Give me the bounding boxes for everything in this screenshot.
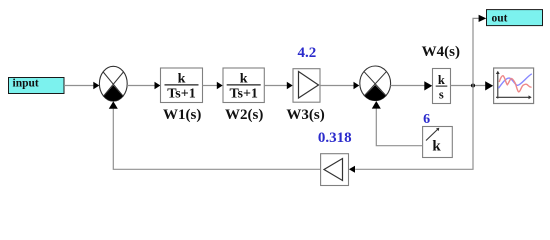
wire W1 to W2 (203, 82, 223, 90)
block W4 k/s integrator (433, 69, 451, 104)
svg-text:input: input (13, 78, 39, 90)
scope block (494, 68, 534, 104)
svg-text:0.318: 0.318 (318, 130, 352, 146)
svg-text:W2(s): W2(s) (225, 107, 263, 123)
svg-text:k: k (438, 73, 445, 87)
summing junction S1 (99, 66, 127, 101)
out sink box "out" (487, 10, 543, 26)
svg-text:4.2: 4.2 (298, 45, 317, 61)
block W1 k/(Ts+1) (161, 68, 203, 103)
block W2 k/(Ts+1) (223, 68, 264, 103)
svg-text:Ts+1: Ts+1 (167, 87, 195, 102)
input source box "input" (9, 78, 65, 94)
wire branch down to feedback line (349, 86, 473, 173)
wire W4 to scope with junction node (451, 81, 494, 90)
summing junction S2 (360, 66, 391, 101)
wire S2 to W4 (390, 81, 432, 90)
svg-text:s: s (439, 88, 444, 102)
svg-text:W4(s): W4(s) (422, 44, 460, 60)
wire S1 to W1 (127, 82, 160, 90)
block gain 0.318 left-pointing amplifier (321, 154, 349, 186)
wire W3 to summing junction S2 (320, 82, 359, 90)
svg-text:k: k (432, 139, 441, 155)
feedback wire 0.318 to S1 (109, 101, 321, 169)
svg-text:Ts+1: Ts+1 (229, 87, 257, 102)
svg-text:out: out (492, 13, 508, 25)
wire input to summing junction S1 (64, 82, 99, 90)
block W3 amplifier triangle (293, 69, 320, 103)
wire W2 to W3 (264, 82, 292, 90)
feedback wire k block to S2 (372, 101, 423, 146)
svg-text:W1(s): W1(s) (163, 107, 201, 123)
svg-text:6: 6 (423, 112, 430, 127)
wire branch up to out box (473, 15, 486, 86)
block gain k (6) (423, 127, 453, 158)
svg-text:W3(s): W3(s) (286, 107, 324, 123)
